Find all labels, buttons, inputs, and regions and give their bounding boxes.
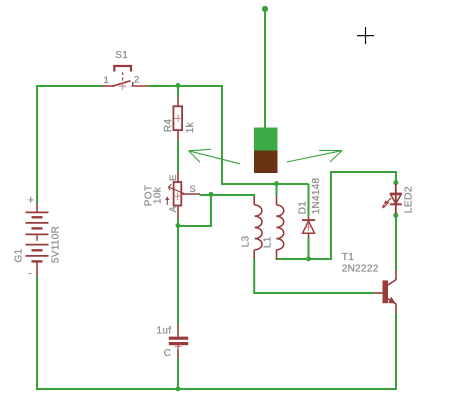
T1 emitter arrowhead (388, 297, 395, 304)
wire L1 bottom over and up to LED top (276, 172, 397, 259)
svg-text:-: - (28, 268, 32, 280)
svg-text:E: E (168, 174, 179, 181)
junction node at D1 bottom (306, 256, 311, 261)
svg-text:5V110R: 5V110R (50, 226, 61, 263)
ferrite core brown half (254, 151, 278, 174)
wire L1 top stub (276, 184, 278, 195)
T1 base lead (374, 292, 383, 294)
svg-text:G1: G1 (13, 248, 24, 262)
antenna top node (262, 6, 268, 12)
junction node at C bottom rail (176, 386, 181, 391)
POT wiper arrowhead (165, 196, 169, 200)
capacitor C leads (177, 325, 179, 359)
svg-text:L1: L1 (263, 236, 274, 248)
svg-text:+: + (28, 195, 35, 207)
svg-text:D1: D1 (297, 201, 308, 215)
junction node S (209, 192, 214, 197)
wire C bottom to rail (177, 358, 179, 389)
switch S1 (102, 66, 148, 86)
wire D1 bottom stub (308, 238, 310, 260)
svg-text:1uf: 1uf (157, 326, 172, 337)
junction node LED bottom (393, 213, 398, 218)
wire battery- down, bottom rail, up to emitter (37, 276, 396, 389)
wire node S down and left to node A (178, 195, 211, 226)
svg-text:L3: L3 (241, 235, 252, 247)
svg-text:LED2: LED2 (402, 186, 414, 213)
C origin tick (174, 346, 181, 350)
ferrite core green half (254, 128, 278, 151)
D1 origin cross (305, 223, 312, 230)
svg-text:1k: 1k (185, 121, 196, 133)
S1 origin cross (119, 83, 126, 90)
inductor L3 (254, 197, 262, 260)
wire POT A stub (177, 218, 179, 226)
junction node at S1/R4 (176, 83, 181, 88)
potentiometer POT (167, 171, 200, 218)
T1 emitter (388, 299, 396, 304)
wire battery+ up and over to S1 pin1 (37, 86, 102, 204)
junction node A (176, 223, 181, 228)
junction node LED top (393, 180, 398, 185)
diode D1 (302, 216, 315, 238)
svg-text:C: C (164, 348, 172, 359)
wire D1 top stub (308, 184, 310, 216)
POT origin cross (174, 193, 181, 200)
junction node at L1 top (274, 181, 279, 186)
svg-text:A: A (168, 206, 179, 213)
svg-text:2N2222: 2N2222 (342, 264, 379, 275)
inductor L1 (276, 195, 283, 259)
svg-text:T1: T1 (342, 252, 354, 263)
svg-text:S: S (190, 184, 197, 195)
resistor R4 (173, 96, 182, 140)
svg-text:2: 2 (134, 75, 140, 86)
wire node A down to C (177, 226, 179, 325)
wire R4 top stub (177, 86, 179, 97)
svg-text:10k: 10k (153, 186, 164, 204)
wire L3 bottom down and over to T1 base (254, 258, 374, 293)
cursor crosshair (357, 27, 374, 44)
annotation arrow right (287, 150, 342, 162)
svg-text:S1: S1 (115, 50, 128, 61)
wire S1 pin2 to corner, down, over to D1 top (148, 86, 309, 184)
LED light arrowheads (384, 200, 388, 204)
wire POT wiper to node S (200, 194, 212, 196)
T1 base bar (383, 280, 389, 303)
battery G1 (26, 203, 49, 276)
svg-text:R4: R4 (163, 119, 174, 133)
R4 origin cross (174, 115, 181, 122)
LED2 (395, 184, 397, 214)
capacitor C plates (169, 337, 188, 340)
svg-text:1: 1 (104, 75, 110, 86)
annotation arrow left (189, 149, 240, 164)
svg-text:1N4148: 1N4148 (311, 177, 322, 214)
antenna wire (264, 10, 266, 128)
T1 collector (388, 280, 396, 285)
wire LED bottom to collector (395, 216, 397, 271)
wire node S to L3 top (211, 195, 254, 197)
wire R4 bottom to POT E (177, 140, 179, 172)
